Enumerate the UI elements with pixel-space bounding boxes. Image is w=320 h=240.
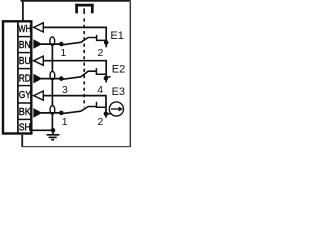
WH wire — [43, 26, 106, 28]
BU feed vertical to E2 fixed contact — [105, 60, 107, 83]
BN wire — [41, 43, 61, 45]
SH junction dot — [51, 128, 56, 133]
svg-text:E3: E3 — [112, 86, 125, 98]
svg-text:1: 1 — [61, 48, 67, 59]
svg-text:GY: GY — [19, 90, 31, 101]
block inner vertical separator — [17, 21, 19, 135]
svg-text:E2: E2 — [112, 63, 125, 75]
ground stub — [52, 130, 54, 134]
svg-text:BK: BK — [19, 107, 31, 118]
svg-text:WH: WH — [18, 24, 31, 35]
svg-text:BU: BU — [19, 56, 31, 67]
E1 blade — [61, 38, 97, 45]
enclosure bottom line — [22, 146, 130, 148]
E3 fixed junction dot — [104, 112, 109, 117]
svg-text:1: 1 — [62, 117, 68, 128]
svg-text:BN: BN — [19, 40, 31, 51]
enclosure top line — [21, 0, 131, 2]
BK row: filled arrow out — [34, 109, 42, 118]
dashed actuator line — [83, 8, 85, 14]
svg-text:3: 3 — [62, 85, 68, 96]
BU row: open arrow into connector — [34, 56, 44, 65]
E3 fixed contact tick and arm — [97, 102, 107, 107]
cell labels — [18, 24, 31, 133]
WH feed vertical to E1 fixed contact — [105, 27, 107, 48]
ground symbol — [47, 135, 60, 140]
BK wire — [41, 112, 61, 114]
enclosure right line — [129, 1, 131, 147]
E2 fixed contact tick and arm — [96, 68, 106, 74]
svg-text:2: 2 — [98, 117, 104, 128]
E1 fixed junction dot — [104, 40, 109, 45]
GY wire — [43, 95, 106, 97]
wire dot to adjuster circle — [106, 113, 112, 115]
svg-text:4: 4 — [97, 85, 103, 96]
E3 pivot dot — [59, 111, 64, 116]
GY row: open arrow into connector — [34, 91, 44, 100]
E1 pivot dot — [59, 42, 64, 47]
E2 leader stub — [106, 76, 111, 78]
E2 fixed junction dot — [104, 76, 109, 81]
E2 pivot dot — [59, 76, 64, 81]
svg-text:RD: RD — [19, 73, 31, 84]
hop loop BK row — [50, 106, 55, 115]
shield vertical wire — [51, 41, 53, 130]
cell separators — [18, 37, 32, 120]
E3 adjuster circle with arrow — [109, 102, 123, 116]
wire block-bottom to enclosure — [21, 135, 23, 147]
svg-text:E1: E1 — [110, 30, 123, 42]
BU wire — [43, 60, 106, 62]
RD row: filled arrow out — [34, 74, 42, 83]
wire block-top to enclosure — [22, 1, 24, 21]
actuator plunger symbol — [75, 4, 93, 14]
hop loop RD row — [50, 71, 55, 80]
E2 blade — [61, 71, 97, 79]
hop loop BN row — [50, 37, 55, 46]
svg-text:2: 2 — [98, 48, 104, 59]
SH row wire — [32, 129, 53, 131]
svg-text:SH: SH — [19, 122, 31, 133]
BN row: filled arrow out — [34, 40, 42, 49]
E3 blade — [61, 107, 97, 114]
WH row: open arrow into connector — [34, 23, 44, 32]
RD wire — [41, 78, 61, 80]
E1 fixed contact tick and arm — [97, 35, 107, 41]
GY feed vertical to E3 fixed contact — [105, 95, 107, 118]
connector block outline — [3, 21, 31, 133]
